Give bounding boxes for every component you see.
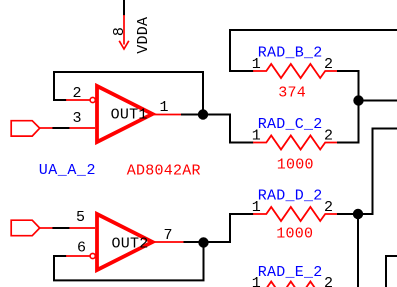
resistor RAD_C_2: [253, 136, 337, 150]
svg-text:1: 1: [252, 56, 261, 73]
svg-text:AD8042AR: AD8042AR: [127, 162, 201, 179]
svg-text:2: 2: [73, 85, 82, 102]
wire VDDA vertical: [123, 0, 125, 16]
resistor RAD_B_2: [253, 64, 337, 78]
svg-text:2: 2: [324, 56, 333, 73]
svg-text:UA_A_2: UA_A_2: [39, 162, 96, 179]
svg-text:VDDA: VDDA: [135, 17, 152, 54]
svg-text:8: 8: [111, 27, 128, 36]
wire RAD_B_2 pin 2 down to RAD_C_2 pin 2: [337, 71, 359, 143]
svg-text:OUT1: OUT1: [111, 107, 148, 124]
wire output op-amp 2 to junction and to RAD_D_2 pin 1: [184, 214, 254, 242]
wire bottom-right corner: [386, 256, 397, 287]
op-amp U2 pin 6 stub: [66, 255, 90, 257]
wire feedback loop op-amp 2: [54, 246, 204, 280]
wire feedback loop op-amp 1: [54, 72, 203, 110]
op-amp U1 triangle: [97, 86, 153, 142]
junction node RAD_D/RAD_E: [353, 209, 363, 219]
svg-text:1000: 1000: [277, 157, 314, 174]
op-amp U2 pin 5 stub: [69, 227, 95, 229]
power pin VDDA (red arrow down): [119, 15, 129, 49]
svg-text:3: 3: [73, 110, 82, 127]
port connector P2 (input to pin 5): [11, 220, 52, 236]
svg-text:6: 6: [77, 240, 86, 257]
svg-text:1: 1: [252, 199, 261, 216]
op-amp U1 pin 2 stub: [66, 99, 90, 101]
wire output op-amp 1 to junction and to RAD_C_2 pin 1: [181, 115, 254, 143]
junction node op-amp 2 output: [198, 237, 208, 247]
svg-text:1: 1: [252, 128, 261, 145]
wire junction up-right branch: [358, 129, 397, 215]
svg-text:5: 5: [76, 209, 85, 226]
svg-text:2: 2: [324, 128, 333, 145]
svg-text:RAD_B_2: RAD_B_2: [258, 45, 323, 62]
wire RAD_D_2 pin 2 to junction, down to RAD_E_2 pin 2: [337, 214, 358, 287]
resistor RAD_E_2 (clipped at bottom): [253, 282, 337, 287]
op-amp U2 pin 6 inverting bubble: [90, 253, 95, 258]
op-amp U2 triangle: [97, 214, 153, 270]
svg-text:RAD_D_2: RAD_D_2: [258, 188, 323, 205]
svg-text:2: 2: [324, 199, 333, 216]
port connector P1 (input to pin 3): [11, 121, 52, 136]
svg-text:2: 2: [324, 275, 333, 287]
op-amp U1 output pin 1 stub: [153, 114, 182, 116]
wire pin 5 net: [52, 227, 69, 229]
resistor RAD_D_2: [253, 207, 337, 221]
svg-text:7: 7: [164, 227, 173, 244]
svg-text:1: 1: [252, 275, 261, 287]
svg-text:1000: 1000: [276, 226, 313, 243]
junction node op-amp 1 output: [198, 109, 208, 119]
svg-text:RAD_C_2: RAD_C_2: [258, 116, 323, 133]
svg-text:RAD_E_2: RAD_E_2: [258, 264, 323, 281]
op-amp U2 output pin 7 stub: [153, 241, 184, 243]
wire RAD_B_2 pin 1 rail (top): [230, 30, 397, 71]
wire pin 3 net: [52, 127, 69, 129]
svg-text:1: 1: [160, 99, 169, 116]
op-amp U1 pin 2 inverting bubble: [90, 97, 95, 102]
op-amp U1 pin 3 stub: [69, 127, 95, 129]
junction node RAD_B/RAD_C: [353, 95, 363, 105]
svg-text:OUT2: OUT2: [112, 235, 149, 252]
wire junction right rail: [358, 100, 397, 102]
svg-text:374: 374: [278, 85, 306, 102]
